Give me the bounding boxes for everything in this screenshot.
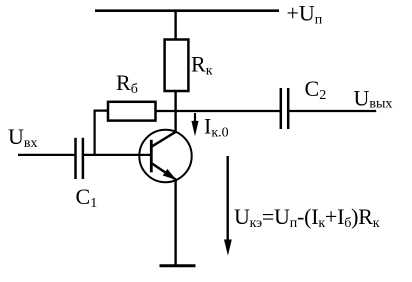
svg-text:C1: C1 (76, 184, 98, 211)
transistor VT1 circle (139, 130, 191, 182)
arrow Ik0 current (191, 113, 198, 136)
capacitor C2 (281, 88, 288, 129)
transistor VT1 collector diagonal (151, 132, 176, 147)
svg-text:Uкэ=Uп-(Iк+Iб)Rк: Uкэ=Uп-(Iк+Iб)Rк (234, 204, 380, 231)
svg-text:Rб: Rб (116, 70, 138, 97)
svg-text:+Uп: +Uп (287, 1, 323, 28)
wire: +Up power rail (95, 9, 279, 12)
transistor VT1 base bar (150, 140, 153, 173)
wire: input lead Uvx (18, 154, 75, 156)
wire: rail to Rk top (174, 11, 176, 40)
wire: Rk bottom to collector (174, 91, 176, 133)
wire: base wire C1 to transistor (84, 154, 151, 156)
wire: emitter to ground (174, 181, 176, 267)
transistor VT1 emitter diagonal (151, 163, 177, 181)
capacitor C1 (76, 138, 83, 179)
svg-text:Uвых: Uвых (354, 86, 393, 112)
svg-text:C2: C2 (305, 76, 327, 103)
svg-text:Iк.0: Iк.0 (204, 113, 229, 140)
ground (160, 264, 196, 267)
resistor Rb (108, 102, 156, 121)
wire: Rb left lead (95, 111, 108, 155)
wire: output lead Uvyx (289, 110, 376, 112)
wire: collector node horizontal (Rb right to C2) (156, 110, 281, 112)
arrow Uke (long vertical) (224, 156, 232, 256)
svg-text:Uвх: Uвх (8, 124, 38, 151)
resistor Rk (165, 40, 189, 92)
svg-text:Rк: Rк (191, 52, 213, 79)
transistor VT1 emitter arrowhead (163, 169, 177, 180)
